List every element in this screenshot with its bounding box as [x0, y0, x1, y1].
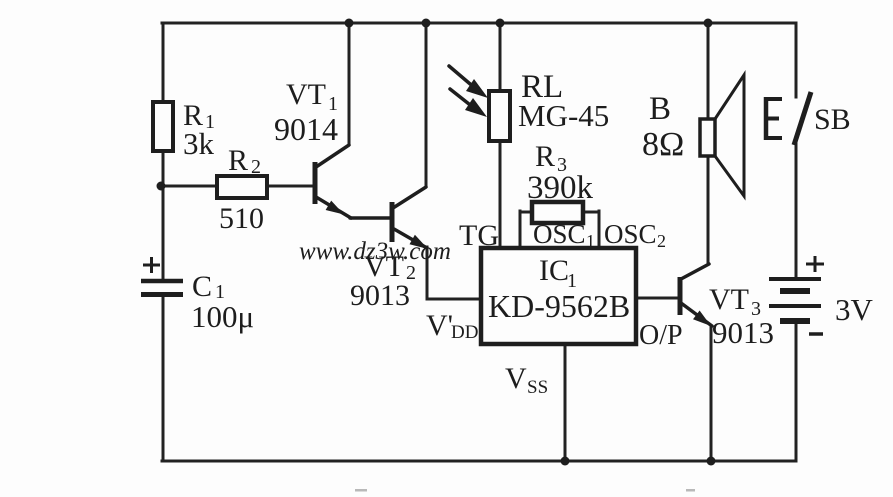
svg-text:O/P: O/P: [639, 320, 683, 351]
svg-text:100μ: 100μ: [191, 299, 254, 334]
svg-text:V': V': [426, 309, 453, 342]
svg-text:2: 2: [657, 231, 666, 251]
svg-text:KD-9562B: KD-9562B: [488, 288, 630, 324]
svg-text:R: R: [535, 140, 555, 173]
svg-text:R: R: [228, 144, 248, 177]
svg-text:OSC: OSC: [604, 219, 657, 249]
svg-text:V: V: [505, 362, 527, 395]
svg-text:SS: SS: [527, 377, 548, 398]
svg-text:DD: DD: [451, 322, 478, 343]
svg-text:9013: 9013: [350, 279, 410, 312]
svg-text:VT: VT: [709, 283, 749, 316]
svg-text:TG: TG: [459, 219, 499, 252]
svg-text:8Ω: 8Ω: [642, 126, 684, 163]
svg-text:3k: 3k: [183, 126, 215, 161]
svg-text:IC: IC: [539, 254, 569, 287]
svg-text:9013: 9013: [712, 315, 774, 350]
svg-text:3V: 3V: [835, 292, 874, 327]
svg-text:1: 1: [586, 231, 595, 251]
svg-text:OSC: OSC: [533, 219, 586, 249]
svg-text:MG-45: MG-45: [518, 98, 609, 133]
svg-text:2: 2: [251, 156, 261, 178]
svg-text:9014: 9014: [274, 111, 338, 147]
svg-text:B: B: [649, 91, 671, 127]
svg-text:SB: SB: [814, 103, 851, 136]
svg-text:390k: 390k: [527, 170, 594, 206]
svg-text:www.dz3w.com: www.dz3w.com: [299, 238, 451, 265]
svg-text:510: 510: [219, 202, 264, 235]
svg-text:VT: VT: [286, 78, 326, 111]
